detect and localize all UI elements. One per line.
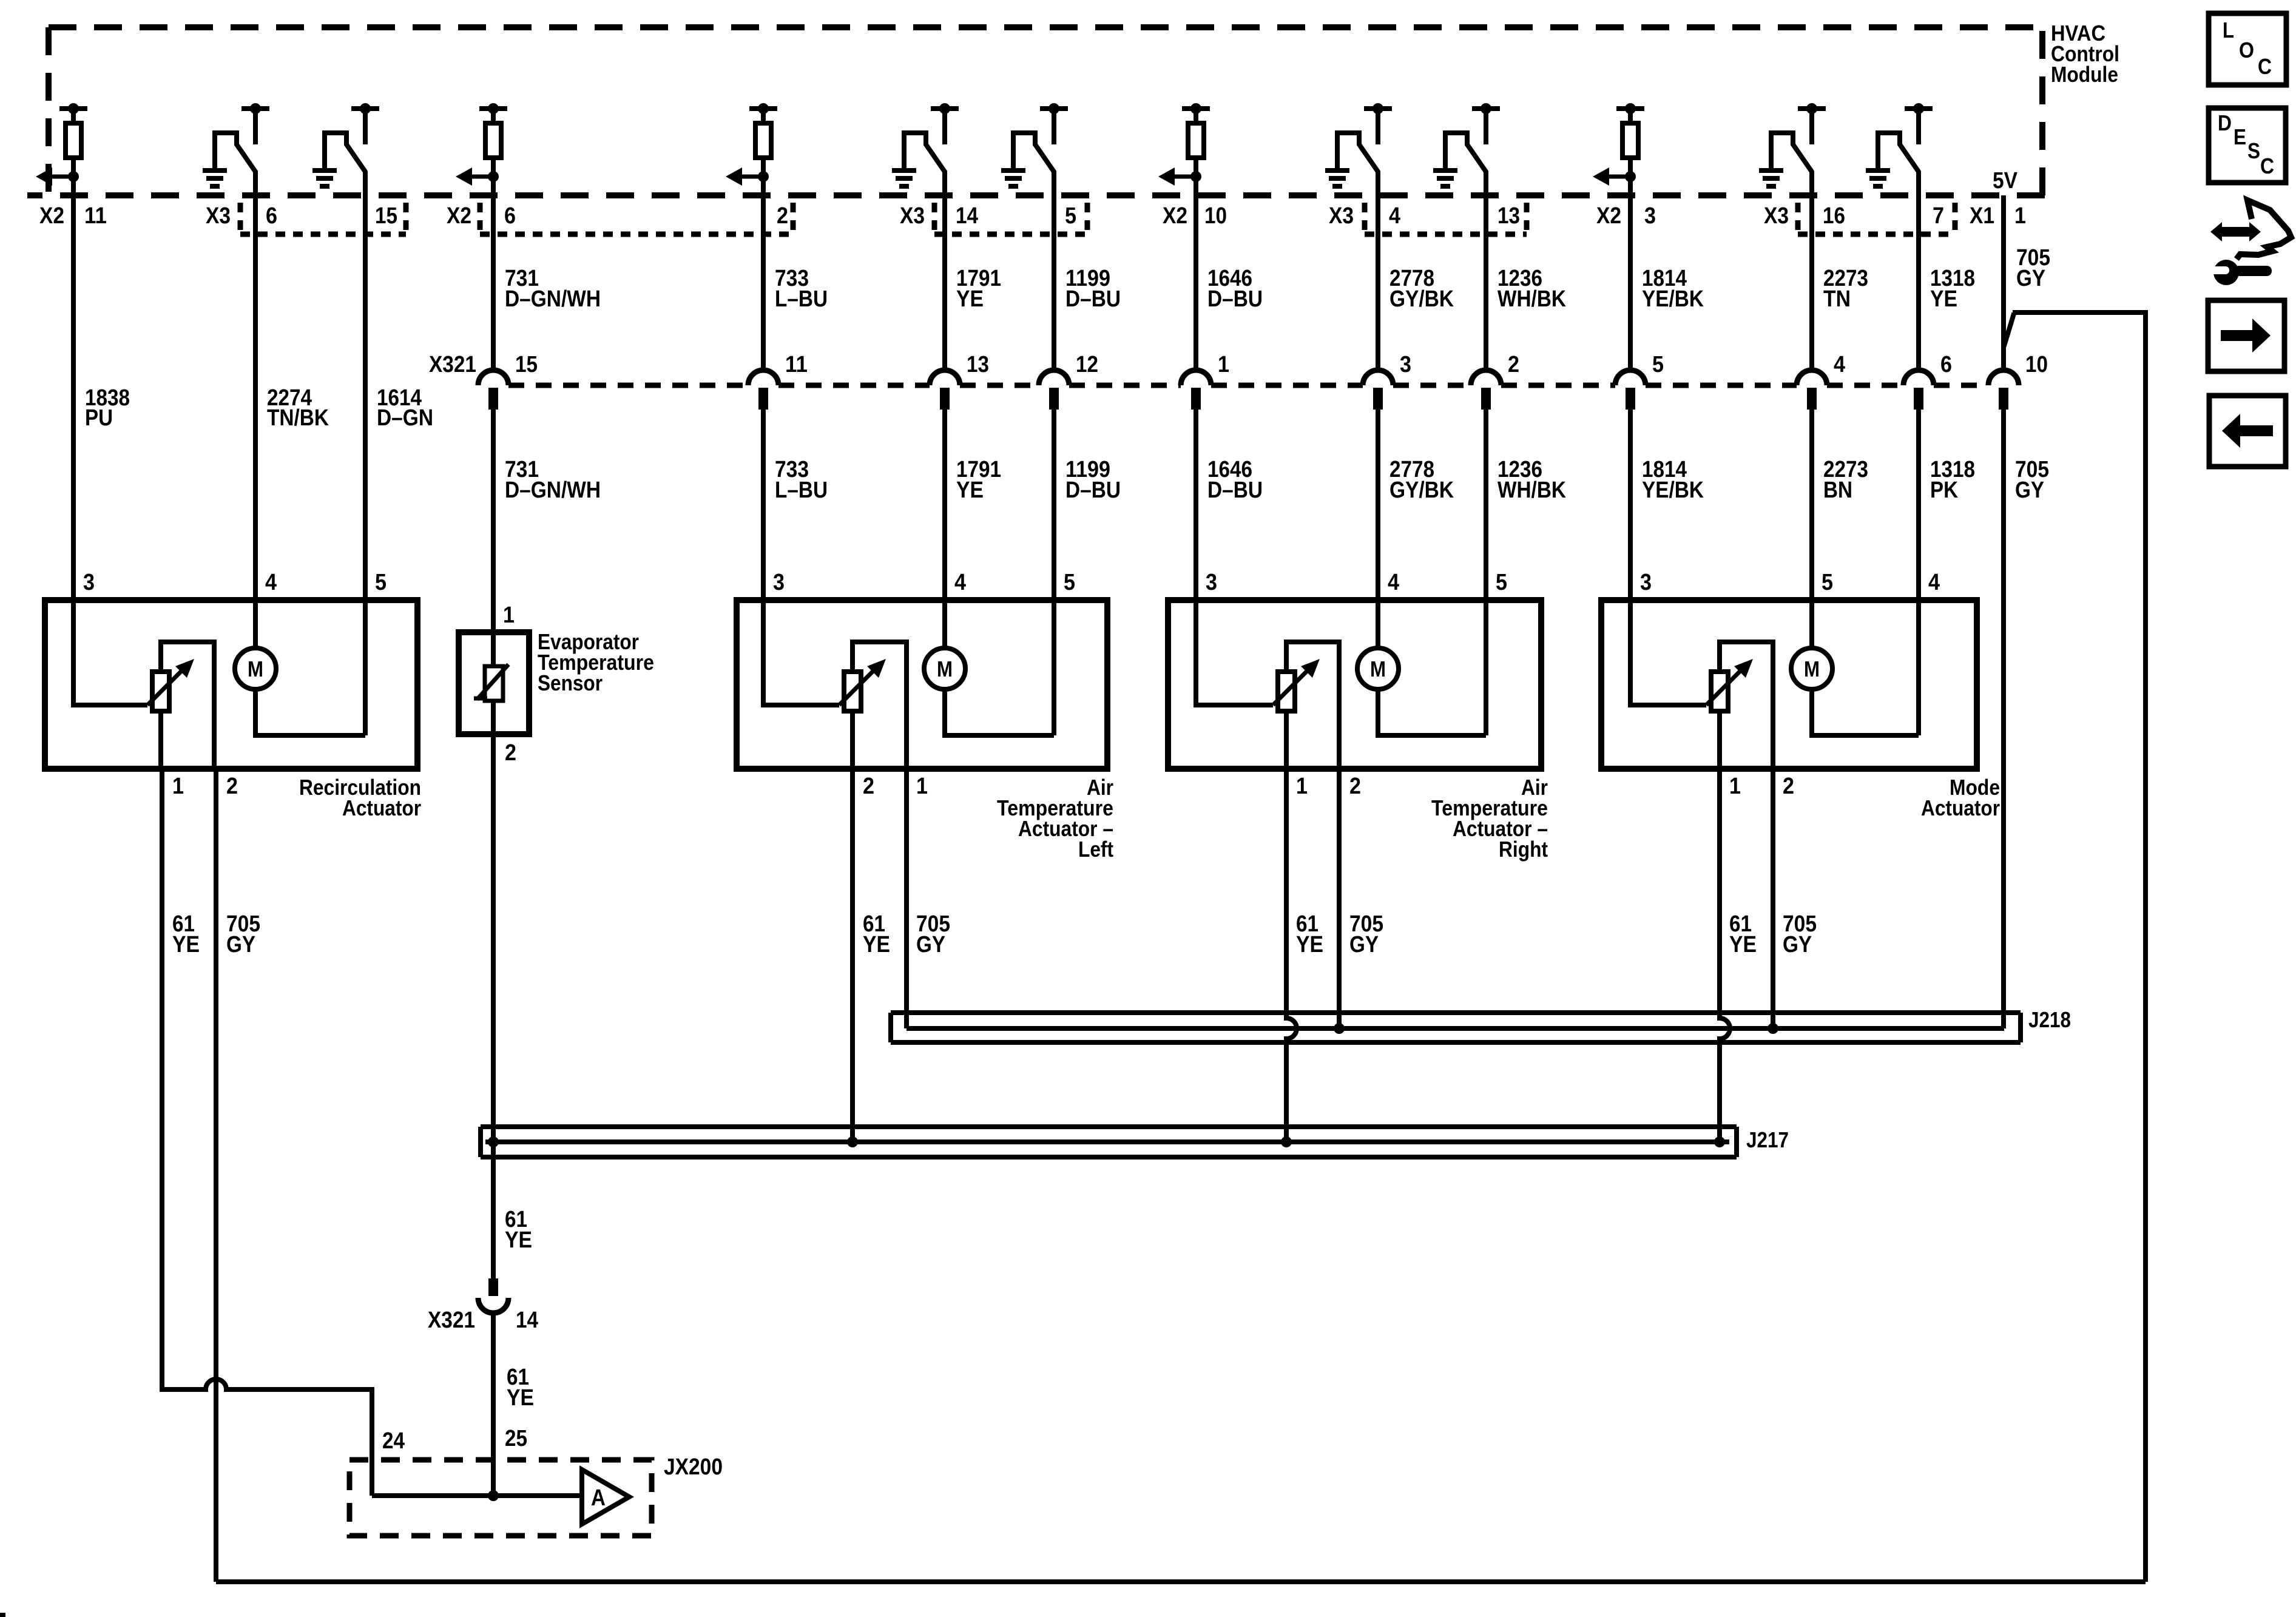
svg-text:4: 4 [1389,203,1400,229]
wire 705 GY (Air Temp Actuator Left pin 1 into splice J218) [904,769,909,1028]
wire number/colour labels between X321 and actuators [505,457,2049,503]
junction dot J217 / ATR 61 YE [1281,1136,1292,1147]
svg-text:14: 14 [956,203,978,229]
J217 label [1746,1127,1789,1152]
svg-text:Sensor: Sensor [538,670,603,695]
svg-text:D: D [2218,110,2232,135]
svg-text:M: M [1370,657,1386,681]
switch to ground, HVAC module X3 pin 6 [215,103,269,195]
svg-text:PU: PU [85,405,113,431]
wire column at x=2986 module to X321 [1809,195,1814,371]
X321 connector terminal, pin 15 [478,352,538,410]
svg-text:5V: 5V [1993,168,2018,194]
svg-text:X3: X3 [206,203,231,229]
svg-text:YE/BK: YE/BK [1642,478,1704,503]
switch to ground, HVAC module X3 pin 7 [1878,103,1933,195]
connector sub-box dotted outlines at module face [240,203,1955,234]
splice J218 shell [891,1013,2021,1042]
wire column at x=1971 X321 to actuator [1194,410,1198,600]
Mode Actuator box [1601,600,1977,769]
wire 731 D-GN/WH into Evaporator Temperature Sensor pin 1 [493,410,515,632]
svg-text:1: 1 [1296,774,1308,799]
driver/resistor output, HVAC module X2 pin 2 [726,103,777,195]
splice J217 shell [481,1127,1737,1157]
amplifier A inside JX200 [582,1470,629,1524]
ground (inside HVAC module) [1001,170,1025,186]
svg-text:X1: X1 [1970,203,1994,229]
svg-text:11: 11 [84,203,107,229]
X321 connector terminal, pin 5 [1615,352,1664,410]
svg-text:WH/BK: WH/BK [1497,286,1566,312]
svg-text:15: 15 [375,203,397,229]
svg-text:PK: PK [1930,478,1958,503]
wire 705 GY (Recirculation pin 2 to bottom rail) [214,769,218,1582]
svg-text:YE: YE [505,1227,532,1253]
back arrow legend box [2209,396,2286,467]
svg-text:YE: YE [956,286,984,312]
motor M inside Air Temperature Actuator - Right [1357,600,1486,735]
Recirculation Actuator label [299,775,421,820]
wire column at x=1557 module to X321 [942,195,947,371]
svg-text:J218: J218 [2028,1007,2071,1032]
wire column at x=813 X321 to actuator [491,410,496,600]
svg-text:Actuator: Actuator [342,795,421,820]
svg-text:2: 2 [226,774,238,799]
svg-text:2: 2 [863,774,874,799]
junction dot JX200 input [488,1490,499,1501]
svg-text:L: L [2223,18,2234,42]
X321 connector terminal, pin 11 [748,352,808,410]
svg-text:YE: YE [507,1385,534,1411]
svg-text:YE: YE [1729,932,1757,957]
svg-text:X3: X3 [1764,203,1789,229]
thermistor symbol inside sensor [474,632,508,734]
svg-text:Module: Module [2051,62,2118,87]
svg-text:C: C [2260,154,2274,178]
position potentiometer inside Air Temperature Actuator - Left [763,600,907,769]
5V supply node, HVAC module X1 pin 1 [1993,168,2018,194]
svg-text:YE: YE [863,932,890,957]
61 YE labels on sensor wire [505,1207,532,1253]
DESC legend box [2209,108,2286,183]
X321 connector terminal, pin 4 [1797,352,1845,410]
wire number/colour labels between module and X321 [505,245,2050,312]
X321 connector terminal, pin 1 [1181,352,1229,410]
wire column at x=1258 module to X321 [761,195,766,371]
page corner mark [0,1613,5,1617]
switch to ground, HVAC module X3 pin 13 [1445,103,1500,195]
wire 61 YE (Recirculation pin 1 to JX200 pin 24), hop over 705 GY [162,769,372,1496]
svg-text:1: 1 [1218,352,1229,377]
svg-text:JX200: JX200 [664,1454,723,1480]
Air Temperature Actuator - Left label [997,775,1113,862]
svg-text:GY: GY [2016,266,2045,291]
wire labels for recirculation actuator columns [85,385,433,431]
wire column at x=1557 X321 to actuator [942,410,947,600]
svg-text:X2: X2 [1163,203,1187,229]
svg-text:6: 6 [504,203,516,229]
svg-text:Left: Left [1078,837,1113,862]
switch to ground, HVAC module X3 pin 4 [1337,103,1392,195]
wire 2274 TN/BK (X3:6 to Recirculation Actuator pin 4) [253,195,258,600]
svg-text:D–GN: D–GN [377,405,433,431]
J218 label [2028,1007,2071,1032]
svg-text:5: 5 [1652,352,1664,377]
X321 in-line connector dashed row [508,383,1988,388]
svg-text:X321: X321 [429,352,476,377]
wire column at x=2271 X321 to actuator [1376,410,1380,600]
svg-text:GY/BK: GY/BK [1389,286,1454,312]
svg-text:4: 4 [1834,352,1845,377]
svg-text:5: 5 [1496,570,1507,595]
Air Temperature Actuator - Right box [1168,600,1541,769]
svg-text:11: 11 [785,352,808,377]
svg-text:YE: YE [172,932,200,957]
svg-text:3: 3 [1644,203,1656,229]
svg-text:YE/BK: YE/BK [1642,286,1704,312]
actuator pin numbers (bottom side) [172,774,1794,799]
svg-text:1: 1 [172,774,184,799]
svg-text:4: 4 [954,570,966,595]
Mode Actuator label [1921,775,2000,820]
svg-text:3: 3 [83,570,95,595]
svg-text:5: 5 [375,570,387,595]
wire 1614 D-GN (X3:15 to Recirculation Actuator pin 5) [363,195,368,600]
svg-text:1: 1 [1729,774,1741,799]
wire column at x=2449 X321 to actuator [1484,410,1488,600]
svg-text:J217: J217 [1746,1127,1789,1152]
svg-text:C: C [2258,54,2272,79]
wire column at x=813 module to X321 [491,195,496,371]
ground (inside HVAC module) [1433,170,1457,186]
Air Temperature Actuator - Right label [1431,775,1548,862]
X321 connector terminal, pin 13 [930,352,989,410]
svg-text:D–BU: D–BU [1065,286,1121,312]
svg-text:12: 12 [1076,352,1098,377]
switch to ground, HVAC module X3 pin 16 [1771,103,1826,195]
svg-text:X3: X3 [900,203,925,229]
JX200 pin 24 label [382,1428,405,1454]
svg-text:10: 10 [1204,203,1227,229]
svg-text:GY: GY [226,932,255,957]
actuator pin numbers (top side) [83,570,1940,595]
svg-text:2: 2 [1783,774,1794,799]
svg-text:YE: YE [956,478,984,503]
svg-text:E: E [2234,124,2246,149]
svg-text:2: 2 [505,740,516,766]
svg-text:7: 7 [1933,203,1944,229]
ground (inside HVAC module) [892,170,916,186]
svg-text:GY: GY [2015,478,2044,503]
HVAC Control Module name label [2051,21,2119,87]
svg-text:3: 3 [1206,570,1217,595]
driver/resistor output, HVAC module X2 pin 6 [456,103,507,195]
position potentiometer inside Recirculation Actuator [73,600,214,769]
wire column at x=2687 module to X321 [1628,195,1633,371]
svg-text:D–BU: D–BU [1207,286,1263,312]
svg-text:YE: YE [1930,286,1957,312]
svg-text:25: 25 [505,1426,527,1451]
svg-text:X2: X2 [39,203,64,229]
wire 705 GY from X1:1 5V down through X321 pin 10 to J218 [2001,195,2006,1028]
X321 connector name label [429,352,476,377]
ground (inside HVAC module) [1759,170,1783,186]
svg-text:1: 1 [2014,203,2026,229]
wire column at x=2986 X321 to actuator [1809,410,1814,600]
position potentiometer inside Mode Actuator [1630,600,1773,769]
svg-text:4: 4 [1928,570,1940,595]
svg-text:13: 13 [1497,203,1520,229]
wire 705 GY bottom rail [216,1579,2146,1584]
junction dot J217 / sensor 61 YE [488,1136,499,1147]
svg-text:X2: X2 [1596,203,1621,229]
svg-text:4: 4 [265,570,277,595]
connector designator/pin labels at HVAC module face [39,203,2026,229]
forward arrow legend box [2208,300,2284,371]
svg-text:O: O [2239,38,2254,62]
X321 connector terminal, pin 3 [1363,352,1411,410]
svg-text:1: 1 [503,603,515,628]
position potentiometer inside Air Temperature Actuator - Right [1196,600,1339,769]
svg-text:YE: YE [1296,932,1323,957]
X321 in-line connector pin 14 on sensor wire [428,1278,538,1333]
motor M inside Mode Actuator [1791,600,1919,735]
wire 61 YE (Mode Actuator pin 1 to J217), hop over J218 [1720,769,1730,1142]
JX200 dashed box [349,1460,652,1536]
junction dot J217 / Mode 61 YE [1714,1136,1725,1147]
X321 connector terminal, pin 12 [1039,352,1098,410]
svg-text:13: 13 [967,352,989,377]
svg-text:TN/BK: TN/BK [267,405,329,431]
sensor pin 2 label [505,740,516,766]
Evaporator Temperature Sensor box [459,632,529,734]
svg-text:3: 3 [1640,570,1652,595]
splice J218 internal 705 GY bus wire [907,1026,2004,1031]
ground (inside HVAC module) [312,170,337,186]
svg-text:GY: GY [1783,932,1812,957]
wire column at x=3162 X321 to actuator [1916,410,1921,600]
switch to ground, HVAC module X3 pin 14 [904,103,959,195]
svg-text:3: 3 [773,570,785,595]
X321 connector terminal, pin 6 [1903,352,1952,410]
svg-text:WH/BK: WH/BK [1497,478,1566,503]
svg-text:L–BU: L–BU [775,286,828,312]
Evaporator Temperature Sensor label [538,629,654,695]
svg-text:24: 24 [382,1428,405,1454]
svg-text:15: 15 [515,352,538,377]
switch to ground, HVAC module X3 pin 5 [1013,103,1068,195]
svg-text:TN: TN [1823,286,1851,312]
svg-text:GY: GY [1349,932,1379,957]
wire column at x=2449 module to X321 [1484,195,1488,371]
svg-text:6: 6 [266,203,277,229]
JX200 label [664,1454,723,1480]
wire column at x=1971 module to X321 [1194,195,1198,371]
svg-text:L–BU: L–BU [775,478,828,503]
internal wire JX200 pins 24/25 to amplifier [372,1493,582,1498]
svg-text:D–GN/WH: D–GN/WH [505,286,601,312]
svg-text:5: 5 [1065,203,1076,229]
svg-text:3: 3 [1400,352,1411,377]
svg-text:GY: GY [916,932,945,957]
wire column at x=2687 X321 to actuator [1628,410,1633,600]
HVAC Control Module dashed outline [27,27,2045,195]
switch to ground, HVAC module X3 pin 15 [325,103,379,195]
JX200 pin 25 label [505,1426,527,1451]
svg-text:10: 10 [2025,352,2048,377]
svg-text:M: M [937,657,953,681]
motor M inside Recirculation Actuator [235,600,365,735]
ground (inside HVAC module) [1325,170,1349,186]
svg-text:16: 16 [1823,203,1845,229]
junction dot J218 / ATR 705 GY [1334,1023,1345,1034]
svg-text:M: M [1804,657,1820,681]
wire 61 YE (Evaporator sensor pin 2 down to JX200 pin 25) [491,734,496,1496]
ground (inside HVAC module) [203,170,227,186]
X321 connector terminal, pin 2 [1471,352,1519,410]
Recirculation Actuator box [45,600,417,769]
wire column at x=1737 module to X321 [1052,195,1056,371]
svg-text:D–BU: D–BU [1207,478,1263,503]
wire 705 GY branch to right-side loop [2004,312,2146,1582]
svg-text:S: S [2247,138,2260,163]
diagnostic tool icon (double arrow, outline, wrench) [2206,200,2291,285]
Air Temperature Actuator - Left box [737,600,1107,769]
wire column at x=1737 X321 to actuator [1052,410,1056,600]
svg-text:X2: X2 [447,203,471,229]
wire 1838 PU (X2:11 to Recirculation Actuator pin 3) [71,195,76,600]
svg-text:M: M [248,657,263,681]
driver/resistor output, HVAC module X2 pin 10 [1158,103,1210,195]
motor M inside Air Temperature Actuator - Left [924,600,1054,735]
junction dot J218 / Mode 705 GY [1768,1023,1778,1034]
wire column at x=3162 module to X321 [1916,195,1921,371]
svg-text:5: 5 [1822,570,1833,595]
svg-text:2: 2 [1508,352,1519,377]
wire 61 YE (Air Temp Actuator Right pin 1 to J217), hop over J218 [1286,769,1297,1142]
wire column at x=2271 module to X321 [1376,195,1380,371]
wire 61 YE (Air Temp Actuator Left pin 2 to splice J217) [850,769,855,1142]
wire 705 GY (Mode Actuator pin 2 to J218) [1771,769,1775,1028]
svg-text:D–BU: D–BU [1065,478,1121,503]
driver/resistor output, HVAC module X2 pin 11 [36,103,87,195]
svg-text:Actuator: Actuator [1921,795,2000,820]
svg-text:2: 2 [777,203,788,229]
svg-text:1: 1 [916,774,928,799]
svg-text:BN: BN [1823,478,1852,503]
ground (inside HVAC module) [1866,170,1890,186]
wire 705 GY (Air Temp Actuator Right pin 2 to J218) [1337,769,1342,1028]
svg-text:5: 5 [1064,570,1075,595]
svg-text:6: 6 [1940,352,1952,377]
svg-text:4: 4 [1388,570,1399,595]
svg-text:GY/BK: GY/BK [1389,478,1454,503]
svg-text:A: A [591,1485,606,1511]
LOC legend box [2209,13,2286,85]
X321 connector terminal, pin 10 [1988,352,2048,410]
svg-text:X321: X321 [428,1308,475,1333]
svg-text:X3: X3 [1329,203,1354,229]
driver/resistor output, HVAC module X2 pin 3 [1593,103,1644,195]
svg-text:14: 14 [516,1308,538,1333]
svg-text:2: 2 [1349,774,1361,799]
svg-text:D–GN/WH: D–GN/WH [505,478,601,503]
wire column at x=1258 X321 to actuator [761,410,766,600]
61 YE / 705 GY labels under actuators [172,911,1817,957]
svg-text:Right: Right [1499,837,1548,862]
junction dot J217 / ATL 61 YE [847,1136,858,1147]
splice J217 internal 61 YE bus wire [485,1139,1729,1144]
